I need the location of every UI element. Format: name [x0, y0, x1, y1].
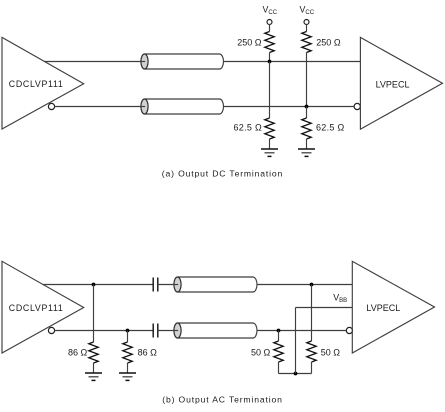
svg-text:CDCLVP111: CDCLVP111 — [9, 79, 64, 89]
resistor R7 50 ohm (b) — [251, 341, 283, 362]
node A junction dot (a) — [268, 60, 272, 64]
resistor R5 86 ohm (b) — [68, 342, 98, 363]
ground symbol left (a) — [261, 149, 278, 156]
resistor R6 86 ohm (b) — [123, 342, 157, 363]
wire R1 to node A (a) — [269, 53, 271, 62]
wire U3 bubble to C2 (b) — [55, 330, 154, 332]
wire T3 to U4 input (b) — [257, 284, 352, 286]
wire node E down to R8 crossing Vbb line and lower line (b) — [311, 285, 313, 342]
svg-text:(b) Output AC Termination: (b) Output AC Termination — [162, 394, 282, 404]
inversion bubble U1 output complement (a) — [48, 103, 54, 109]
ground symbol left (b) — [85, 373, 102, 380]
svg-text:50 Ω: 50 Ω — [251, 348, 271, 358]
resistor R2 250 ohm (a) — [302, 32, 341, 53]
power Vcc terminal 1 (a) — [263, 5, 278, 25]
svg-text:50 Ω: 50 Ω — [321, 348, 341, 358]
svg-text:VCC: VCC — [300, 5, 315, 17]
wire node C down to R5 crossing lower line (b) — [93, 285, 95, 343]
node F junction dot (b) — [277, 329, 281, 333]
resistor R1 250 ohm (a) — [237, 32, 274, 53]
op-amp U4 receiver LVPECL (b) — [352, 261, 434, 353]
op-amp U2 receiver LVPECL (a) — [360, 37, 442, 129]
ground symbol right (b) — [119, 373, 136, 380]
resistor R4 62.5 ohm (a) — [302, 118, 345, 139]
wire R6 to ground (b) — [127, 363, 129, 373]
svg-text:62.5 Ω: 62.5 Ω — [316, 122, 345, 132]
wire node B to R4 (a) — [306, 107, 308, 119]
capacitor C1 (b) — [153, 278, 158, 292]
node E junction dot (b) — [310, 283, 314, 287]
wire node F to R7 (b) — [278, 331, 280, 342]
ground symbol right (a) — [298, 149, 315, 156]
wire node A down to R3 crossing lower line (a) — [269, 62, 271, 119]
svg-text:VBB: VBB — [333, 292, 347, 304]
wire R2 down to node B crossing upper line (a) — [306, 53, 308, 107]
svg-text:86 Ω: 86 Ω — [68, 348, 88, 358]
svg-text:250 Ω: 250 Ω — [237, 38, 262, 48]
wire node G up to Vbb line (b) — [295, 308, 297, 374]
wire U1 bubble to T2 (a) — [55, 106, 145, 108]
transmission line T3 (b) — [174, 277, 257, 292]
svg-text:VCC: VCC — [263, 5, 278, 17]
wire R3 to ground (a) — [269, 139, 271, 149]
transmission line T2 (a) — [141, 99, 224, 114]
wire bottom rail (b) — [279, 373, 312, 375]
wire stub into T1 ellipse (a) — [140, 61, 145, 63]
resistor R8 50 ohm (b) — [307, 341, 340, 362]
inversion bubble U3 output complement (b) — [48, 327, 54, 333]
svg-text:62.5 Ω: 62.5 Ω — [233, 122, 262, 132]
svg-text:CDCLVP111: CDCLVP111 — [9, 303, 64, 313]
svg-text:86 Ω: 86 Ω — [138, 348, 158, 358]
op-amp U1 driver CDCLVP111 (a) — [2, 37, 84, 129]
wire stub into T4 ellipse (b) — [173, 330, 178, 332]
wire U1 output true to T1 (a) — [44, 61, 145, 63]
wire Vcc2 to R2 (a) — [306, 24, 308, 31]
node G junction dot on bottom rail (b) — [294, 372, 298, 376]
svg-text:LVPECL: LVPECL — [366, 303, 400, 313]
resistor R3 62.5 ohm (a) — [233, 118, 274, 139]
wire stub into T3 ellipse (b) — [173, 284, 178, 286]
op-amp U3 driver CDCLVP111 (b) — [2, 261, 84, 353]
transmission line T4 (b) — [174, 323, 257, 338]
capacitor C2 (b) — [153, 324, 158, 338]
wire C1 to T3 (b) — [158, 284, 178, 286]
node B junction dot (a) — [305, 105, 309, 109]
svg-text:LVPECL: LVPECL — [376, 79, 410, 89]
wire R8 to bottom rail (b) — [311, 362, 313, 374]
wire T2 to U2 bubble (a) — [224, 106, 355, 108]
wire U3 output true to C1 (b) — [43, 284, 153, 286]
wire R7 to bottom rail (b) — [278, 362, 280, 374]
wire T1 to U2 input (a) — [224, 61, 361, 63]
svg-text:(a) Output DC Termination: (a) Output DC Termination — [162, 169, 283, 179]
inversion bubble U4 input (b) — [346, 327, 352, 333]
wire Vbb line to U4 (b) — [296, 307, 353, 309]
wire stub into T2 ellipse (a) — [140, 106, 145, 108]
wire node D to R6 (b) — [127, 331, 129, 343]
svg-text:250 Ω: 250 Ω — [316, 38, 341, 48]
wire R4 to ground (a) — [306, 139, 308, 149]
power Vcc terminal 2 (a) — [300, 5, 315, 25]
wire T4 to U4 bubble (b) — [257, 330, 346, 332]
wire C2 to T4 (b) — [158, 330, 178, 332]
node C junction dot (b) — [92, 283, 96, 287]
transmission line T1 (a) — [141, 54, 224, 69]
wire R5 to ground (b) — [93, 363, 95, 373]
node D junction dot (b) — [126, 329, 130, 333]
wire Vcc1 to R1 (a) — [269, 24, 271, 31]
inversion bubble U2 input (a) — [354, 103, 360, 109]
